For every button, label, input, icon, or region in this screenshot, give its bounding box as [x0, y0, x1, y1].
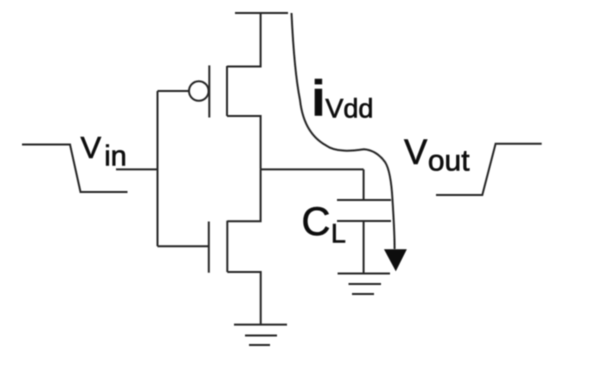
svg-text:CL: CL: [302, 200, 346, 249]
VDD rail: [235, 12, 288, 14]
input waveform (falling edge): [22, 145, 128, 193]
wire: output node to capacitor: [261, 168, 364, 170]
transistor M1 (PMOS) gate bubble: [189, 81, 209, 101]
svg-text:Vin: Vin: [81, 130, 127, 173]
svg-text:iVdd: iVdd: [312, 71, 374, 127]
ground (bottom, NMOS source): [234, 325, 287, 345]
transistor M1 (PMOS) channel bar: [226, 66, 228, 116]
transistor M1 (PMOS) source stub: [227, 13, 261, 67]
wire: NMOS gate stub: [158, 245, 209, 247]
output waveform (rising edge): [436, 144, 542, 195]
capacitor CL bottom plate: [337, 220, 391, 222]
wire: input to gate node: [116, 168, 158, 170]
transistor M2 (NMOS) channel bar: [226, 221, 228, 272]
wire: capacitor top lead: [363, 169, 365, 200]
transistor M1 (PMOS) gate bar: [208, 65, 210, 117]
wire: capacitor bottom lead: [363, 221, 365, 274]
wire: PMOS gate stub: [158, 90, 189, 92]
transistor M2 (NMOS) source stub: [227, 272, 260, 325]
wire: iVdd current flow curve: [292, 13, 395, 249]
wire: gate vertical bus: [157, 91, 159, 246]
transistor M1 (PMOS) drain stub: [227, 116, 261, 169]
svg-text:Vout: Vout: [404, 133, 470, 178]
transistor M2 (NMOS) gate bar: [208, 222, 210, 273]
capacitor CL top plate: [337, 199, 391, 201]
arrowhead of iVdd: [384, 249, 407, 271]
ground (right, under CL): [338, 274, 390, 295]
transistor M2 (NMOS) drain stub: [227, 169, 260, 221]
